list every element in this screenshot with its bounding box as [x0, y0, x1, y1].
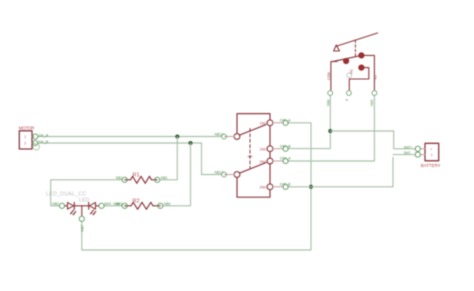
pin circle BATTERY-1 [415, 146, 420, 151]
svg-text:N$8: N$8 [326, 100, 330, 106]
resistor R2 [125, 198, 161, 209]
svg-text:N$13: N$13 [215, 171, 224, 175]
pin circle 1NC [283, 146, 288, 151]
pin circle 2NC [283, 184, 288, 189]
wire switch NO down to 2NO contact [288, 96, 374, 161]
pin circle R2-1 [122, 203, 127, 208]
net label at R1-2 [161, 176, 168, 180]
throw pin stubs [273, 122, 283, 124]
net label at R1-1 [116, 176, 123, 180]
net label BAT+ [404, 145, 412, 149]
pin circle pole P1 [222, 134, 227, 139]
net label at COM pin [326, 100, 330, 106]
connector J1 MOTOR [19, 126, 35, 149]
blade [333, 55, 361, 61]
svg-text:DIR_B: DIR_B [280, 182, 291, 186]
net label at R2-2 [164, 202, 171, 206]
svg-text:+: + [430, 147, 432, 151]
wire LED anode B to R2 left [104, 205, 122, 207]
resistor R1 [125, 173, 158, 184]
net label at P1 [215, 133, 224, 137]
wire net DIR_B motor pin2 to pole P2 [38, 143, 222, 175]
svg-text:2NO: 2NO [260, 160, 268, 164]
net label at LED anode A [52, 202, 59, 206]
pin circle LED anode B [99, 203, 104, 208]
NO path [365, 55, 375, 90]
svg-text:1: 1 [24, 135, 26, 139]
svg-text:4: 4 [345, 99, 349, 101]
wire switch COM down to junction [288, 96, 330, 149]
pin circle 2NO [283, 158, 288, 163]
svg-text:N$5: N$5 [52, 202, 59, 206]
pin circle 1NO [283, 120, 288, 125]
pin circle BATTERY-2 [415, 152, 420, 157]
pole arms [239, 125, 266, 136]
NC contact [358, 65, 364, 71]
svg-text:DIR_B: DIR_B [280, 144, 291, 148]
switch S1 DPDT [225, 114, 284, 198]
wire R1 left to LED anode A [51, 180, 122, 206]
pin circle pole P2 [222, 172, 227, 177]
svg-text:COM: COM [327, 72, 331, 80]
dual LED D1 LED_DUAL_CC [46, 192, 99, 216]
net label at R2-1 [116, 202, 123, 206]
svg-text:N$12: N$12 [215, 133, 224, 137]
junction COM node [328, 129, 332, 133]
net label DIR_A at motor [39, 133, 49, 137]
NC path [349, 68, 369, 91]
svg-text:BAT- N$6: BAT- N$6 [105, 202, 120, 206]
svg-text:DIR_A: DIR_A [280, 157, 291, 161]
pin circle MOTOR-2 [33, 140, 38, 145]
mechanical link dashed [249, 129, 251, 169]
pin circle switch NC [347, 91, 352, 96]
junction riser with battery minus net [309, 185, 313, 189]
pin circle LED anode A [59, 203, 64, 208]
svg-text:2NC: 2NC [260, 186, 268, 190]
svg-text:1NO: 1NO [260, 122, 268, 126]
wire battery minus pin [393, 154, 415, 156]
junction on DIR_A at R1 drop [175, 135, 179, 139]
frame [237, 114, 270, 134]
svg-text:N$9: N$9 [370, 100, 374, 106]
wire 1NO contact to riser [288, 123, 311, 126]
junction on DIR_B at R2 drop [189, 141, 193, 145]
pin circle switch NO [372, 91, 377, 96]
net label at NO pin [370, 100, 374, 106]
connector BATTERY [421, 143, 441, 168]
pin circle R1-2 [155, 177, 160, 182]
net label DIR_B at motor [39, 140, 49, 144]
pole pin stubs [225, 136, 235, 138]
svg-text:N$1: N$1 [116, 176, 123, 180]
throw circles [267, 120, 273, 126]
svg-text:MOTOR: MOTOR [19, 126, 35, 131]
net label BAT- [404, 151, 411, 155]
net label at LED anode B [105, 202, 120, 206]
pin circle LED cathode [79, 216, 84, 221]
svg-text:N$7: N$7 [80, 225, 84, 232]
svg-text:1: 1 [431, 153, 433, 157]
net label at 1NC [280, 144, 291, 148]
svg-text:BAT+: BAT+ [404, 145, 412, 149]
NO contact [358, 52, 364, 58]
pivot grey circle [347, 73, 352, 78]
svg-text:BAT-: BAT- [404, 151, 411, 155]
wire DIR_A drop to R1 right [160, 137, 177, 180]
svg-text:N$4: N$4 [164, 202, 171, 206]
net label at 2NO [280, 157, 291, 161]
svg-text:NC: NC [350, 69, 354, 74]
wire 2NC contact to battery minus [288, 157, 393, 186]
COM path [331, 61, 337, 90]
net label at NC pin [345, 99, 349, 101]
pin circle R1-1 [122, 177, 127, 182]
svg-text:1NC: 1NC [260, 148, 268, 152]
pin circle MOTOR-1 [33, 134, 38, 139]
actuator triangle [334, 45, 340, 51]
svg-text:2: 2 [24, 142, 26, 146]
net label at 2NC [280, 182, 291, 186]
wire COM node to battery plus [330, 131, 415, 149]
svg-text:LED: LED [79, 198, 89, 204]
lever [336, 33, 378, 47]
net label at P2 [215, 171, 224, 175]
net label at 1NO [280, 118, 291, 122]
net label at LED cathode [80, 225, 84, 232]
svg-text:Dir_B: Dir_B [39, 140, 49, 144]
svg-text:BATTERY: BATTERY [421, 163, 441, 168]
dashed link [354, 40, 356, 56]
COM contact [343, 58, 349, 64]
microswitch S2 [327, 33, 378, 90]
svg-text:NO: NO [374, 75, 378, 80]
wire DIR_B drop to R2 right [163, 143, 191, 206]
emission arrows left [71, 210, 74, 214]
svg-text:Dir_A: Dir_A [39, 133, 49, 137]
wire net DIR_A motor pin1 to pole P1 [38, 136, 222, 138]
svg-text:DIR_A: DIR_A [280, 118, 291, 122]
pin circle R2-2 [158, 203, 163, 208]
emission arrows right [91, 210, 94, 214]
wire LED cathode down and along bottom to 1NO riser [82, 126, 311, 250]
pole circles [234, 134, 240, 140]
svg-text:N$2: N$2 [161, 176, 168, 180]
stray circle below motor pin2 [33, 144, 39, 150]
pin circle switch COM [328, 91, 333, 96]
